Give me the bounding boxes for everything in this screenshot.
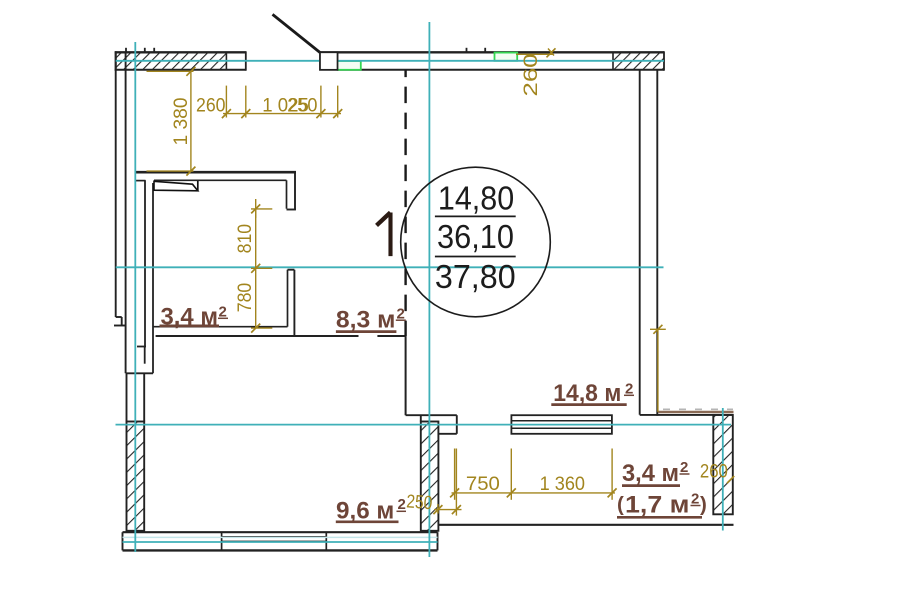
window green 2	[495, 53, 518, 61]
right wall of big room	[640, 70, 658, 416]
svg-text:260: 260	[521, 54, 542, 97]
bathroom door leaf	[154, 181, 198, 191]
svg-text:(: (	[617, 493, 624, 516]
wall top-right hatched	[613, 51, 664, 70]
bottom wall of room 9.6	[123, 532, 438, 550]
svg-text:36,10: 36,10	[437, 218, 514, 255]
svg-text:260: 260	[196, 96, 226, 117]
room label (1,7) balcony reduced	[617, 491, 707, 519]
balcony bottom edge line	[438, 524, 734, 526]
cyan axis line bottom	[123, 541, 438, 543]
dimension 250 pier	[433, 449, 461, 516]
bathroom right lower stub wall	[288, 270, 295, 336]
svg-text:780: 780	[235, 283, 256, 313]
dimension 260 top right	[516, 48, 556, 57]
balcony top wall bottom line	[640, 414, 734, 416]
window green 1	[337, 61, 360, 70]
room label 14,8 living room	[551, 380, 634, 407]
dimension chain 750 1360 bottom	[450, 449, 616, 500]
apartment number circle	[401, 167, 551, 317]
room label 3,4 balcony	[622, 459, 690, 487]
cyan axis line horizontal lower	[116, 424, 732, 426]
door swing arc line	[273, 14, 321, 52]
svg-text:3,4 м: 3,4 м	[622, 460, 679, 487]
room label 9,6 kitchen	[336, 496, 406, 525]
balcony window	[511, 415, 612, 434]
svg-text:250: 250	[406, 491, 433, 514]
door jamb block top overlay	[320, 52, 338, 70]
cyan axis line vertical right	[722, 408, 724, 531]
dimension 260 balcony	[727, 476, 734, 483]
dimension chain 260 1025 250 top	[222, 86, 342, 119]
solid partition line lower	[405, 336, 407, 415]
svg-text:810: 810	[235, 224, 256, 254]
svg-text:1,7 м: 1,7 м	[625, 492, 690, 519]
wall top-left hatched	[115, 51, 246, 70]
circle separator line 2	[435, 256, 516, 258]
svg-text:): )	[700, 493, 707, 516]
bathroom bottom wall	[153, 327, 407, 336]
axis tick marks above wall left	[126, 48, 154, 53]
circle separator line 1	[435, 215, 516, 217]
svg-text:2: 2	[398, 496, 406, 513]
apartment big number 1	[378, 214, 390, 254]
svg-text:14,8 м: 14,8 м	[553, 380, 621, 407]
left lower wall to pier	[127, 373, 145, 421]
left pier hatched	[127, 422, 145, 531]
svg-text:1 380: 1 380	[171, 98, 192, 146]
cyan axis line light bottom	[123, 536, 438, 538]
cyan axis line horizontal top	[116, 60, 664, 62]
svg-text:260: 260	[700, 462, 728, 483]
dashed partition line	[404, 70, 406, 336]
bathroom left wall	[126, 180, 153, 373]
wall segment hallway to balcony	[406, 415, 457, 434]
svg-text:750: 750	[466, 474, 500, 495]
dimension 1380 vertical	[147, 67, 196, 176]
door jamb block top	[320, 52, 338, 70]
dimension line right of living room	[650, 325, 666, 412]
cyan axis line vertical center	[428, 22, 430, 557]
room label 3,4 bathroom	[160, 304, 229, 331]
pier right of room 9.6 hatched	[421, 422, 439, 531]
svg-text:14,80: 14,80	[438, 179, 514, 216]
balcony top wall gray dashes	[663, 408, 733, 410]
bathroom top partition wall	[135, 172, 296, 210]
axis tick marks above wall middle	[467, 48, 486, 53]
cyan axis line horizontal middle	[116, 266, 664, 268]
room label 8,3 hallway	[336, 305, 406, 333]
dimension 810 vertical	[251, 199, 272, 268]
svg-text:1 360: 1 360	[540, 474, 585, 495]
balcony top wall brown band	[658, 411, 734, 414]
bathroom door jamb	[197, 181, 199, 192]
wall top middle	[320, 52, 664, 70]
dimension 780 vertical	[251, 264, 272, 333]
svg-text:37,80: 37,80	[435, 258, 516, 295]
bottom window in wall	[222, 532, 327, 550]
svg-text:8,3 м: 8,3 м	[336, 307, 396, 334]
left outer wall lines	[114, 52, 126, 373]
svg-text:250: 250	[287, 96, 317, 117]
balcony right pier hatched	[713, 415, 733, 514]
cyan axis line vertical left	[134, 42, 136, 552]
